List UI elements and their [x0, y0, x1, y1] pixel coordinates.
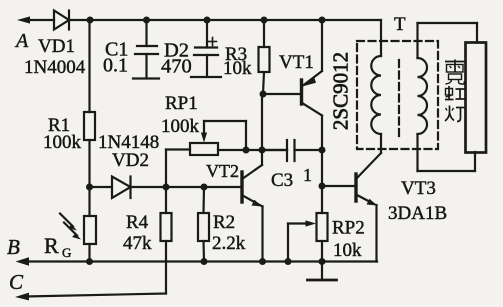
node: junction R2 top	[201, 184, 208, 191]
node: junction RP1 left / R4	[163, 184, 170, 191]
svg-text:47k: 47k	[123, 233, 152, 254]
node: B rail at VT2 emitter	[259, 258, 266, 265]
capacitor C1	[133, 20, 159, 79]
transistor VT2	[242, 153, 263, 262]
neon lamp body	[466, 43, 487, 153]
transistor VT1 (2SC9012)	[263, 20, 322, 150]
ground	[308, 262, 337, 281]
node: top rail junction at R3	[261, 17, 268, 24]
resistor R2	[198, 187, 209, 262]
svg-text:R2: R2	[213, 212, 235, 233]
svg-text:R4: R4	[126, 212, 149, 233]
node: top rail junction at C1	[143, 17, 150, 24]
transformer primary winding	[371, 20, 381, 153]
svg-text:R: R	[44, 233, 59, 258]
svg-text:2.2k: 2.2k	[212, 233, 246, 254]
svg-text:100k: 100k	[43, 132, 82, 153]
wire: node down to RG	[88, 187, 90, 216]
wire: VD2 cathode to VT2 base	[131, 186, 241, 188]
resistor R1	[84, 112, 95, 140]
svg-text:B: B	[7, 235, 20, 259]
wire: left branch down from top rail to R1	[88, 20, 90, 112]
svg-text:VT3: VT3	[401, 178, 436, 199]
svg-text:3DA1B: 3DA1B	[388, 203, 447, 224]
char deng (fire + nail)	[445, 106, 465, 122]
node: B rail at R2	[201, 258, 208, 265]
svg-text:C: C	[9, 270, 24, 294]
svg-text:470: 470	[161, 56, 192, 78]
transformer T dashed box	[357, 41, 438, 149]
wire: secondary top to neon lamp	[418, 23, 478, 43]
node: VT3 base junction	[319, 183, 326, 190]
svg-text:VD1: VD1	[38, 36, 75, 57]
node: top rail junction at R1 branch	[87, 17, 94, 24]
svg-text:VT2: VT2	[206, 161, 239, 181]
wire: terminal A lead with arrow	[17, 16, 54, 23]
char hong (insect + work)	[445, 86, 465, 100]
potentiometer RP1	[166, 121, 287, 187]
wire: terminal C line with arrow	[15, 293, 166, 301]
wire: RG bottom to B rail	[88, 244, 90, 262]
node: B rail at RG	[86, 258, 93, 265]
light arrows into RG	[60, 214, 81, 240]
node: junction R1 / VD2 anode / RG	[86, 184, 93, 191]
svg-text:G: G	[62, 245, 71, 260]
wire: node R3/VT1-base down to C3 node	[261, 94, 263, 150]
capacitor D2 (electrolytic 470)	[191, 20, 221, 77]
wire: B rail (bottom) with arrow	[16, 257, 378, 265]
label neon lamp (hand-drawn CJK)	[445, 60, 465, 122]
node: RP1 right / C3 left / VT2 collector	[259, 147, 266, 154]
svg-text:100k: 100k	[161, 116, 200, 137]
resistor R4	[161, 187, 172, 294]
wire: top rail from VD1 to transformer primary	[69, 19, 381, 21]
wire: VT1 collector line down to VT3 base and RP2	[321, 150, 323, 213]
svg-text:10k: 10k	[333, 240, 362, 261]
diode VD1	[54, 11, 69, 30]
svg-text:2SC9012: 2SC9012	[329, 52, 353, 130]
transistor VT3 (3DA1B)	[322, 153, 381, 262]
node: top rail junction at VT1 emitter	[319, 17, 326, 24]
svg-text:RP1: RP1	[165, 93, 198, 114]
svg-text:T: T	[394, 14, 406, 35]
resistor R3	[259, 20, 270, 94]
svg-text:0.1: 0.1	[103, 55, 128, 77]
svg-text:RP2: RP2	[332, 218, 365, 239]
svg-text:1: 1	[303, 165, 312, 185]
char ni (rain radical over er)	[445, 60, 465, 85]
svg-text:C3: C3	[271, 170, 293, 191]
photoresistor RG	[84, 216, 96, 244]
node: B rail at RP2 wiper	[285, 258, 292, 265]
wire: R1 bottom to VD2 node	[88, 140, 90, 187]
wire: secondary bottom to neon lamp	[418, 152, 476, 171]
node: C3 right on VT1 collector line	[319, 147, 326, 154]
node: top rail junction at D2	[204, 17, 211, 24]
transformer secondary winding	[418, 23, 428, 171]
diode VD2 (1N4148)	[112, 177, 131, 199]
node: B rail at ground	[319, 258, 326, 265]
svg-text:VT1: VT1	[279, 52, 314, 73]
transformer core (dashed)	[398, 60, 400, 136]
potentiometer RP2	[288, 213, 328, 262]
svg-text:A: A	[14, 30, 29, 52]
svg-text:10k: 10k	[223, 58, 252, 79]
svg-text:1N4004: 1N4004	[24, 57, 86, 78]
capacitor C3	[262, 140, 322, 161]
wire: VD2 row from R1 node	[90, 186, 113, 188]
svg-text:VD2: VD2	[112, 150, 149, 171]
node: RP1 wiper tie	[243, 147, 250, 154]
node: R3 bottom / VT1 base	[260, 91, 267, 98]
